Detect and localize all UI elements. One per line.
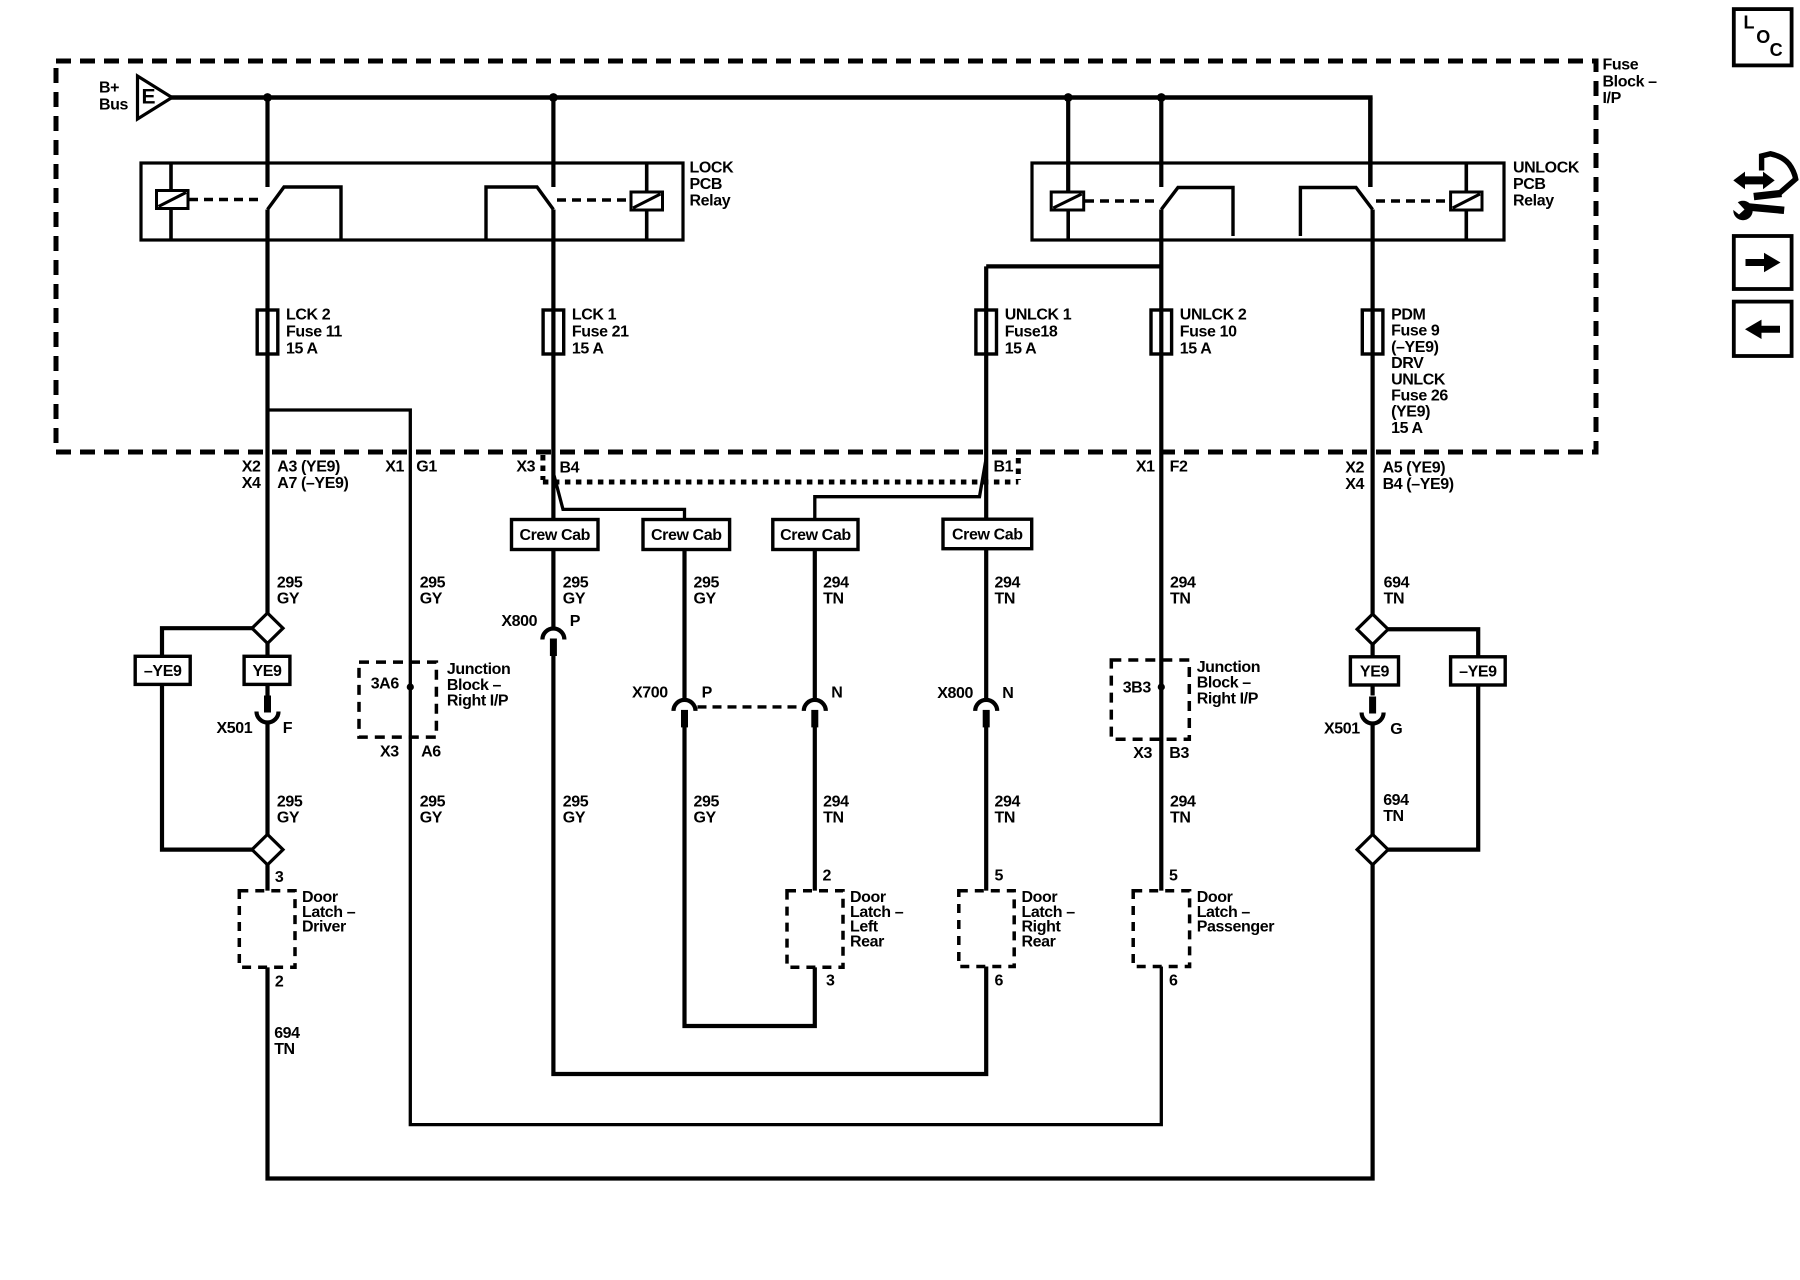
UNLOCK relay coil-switch dashed link 1	[1085, 199, 1157, 202]
wire F: down through B1, crew cab 4, X800 N, right rear latch pin 5	[984, 266, 988, 519]
svg-text:Rear: Rear	[1022, 933, 1056, 950]
option box YE9 left	[244, 656, 290, 684]
Crew Cab box 1	[512, 520, 599, 550]
inline connector X800 N	[975, 700, 997, 711]
wire H: PDM fuse branch down to diamond	[1370, 210, 1374, 615]
svg-text:3: 3	[826, 972, 835, 989]
svg-text:X4: X4	[242, 475, 261, 492]
forward arrow box icon	[1734, 236, 1792, 289]
svg-text:TN: TN	[274, 1041, 295, 1058]
svg-text:Fuse 21: Fuse 21	[572, 324, 629, 341]
svg-text:GY: GY	[563, 591, 586, 608]
junction block right I/P (3B3) dashed box	[1111, 660, 1189, 739]
svg-text:Driver: Driver	[302, 919, 346, 936]
svg-text:I/P: I/P	[1603, 90, 1622, 107]
LOCK PCB relay box	[141, 163, 683, 240]
svg-text:15 A: 15 A	[286, 341, 318, 358]
UNLOCK relay coil 2 wires	[1465, 163, 1469, 193]
svg-text:B4 (–YE9): B4 (–YE9)	[1383, 476, 1454, 493]
branch wire: A to junction block X1 G1	[268, 410, 1162, 1125]
svg-text:295: 295	[563, 575, 589, 592]
option box YE9 right	[1350, 657, 1398, 685]
svg-text:E: E	[142, 86, 156, 109]
svg-text:YE9: YE9	[1360, 664, 1390, 681]
junction block right I/P (3A6) dashed box	[359, 662, 436, 737]
svg-text:N: N	[1002, 685, 1013, 702]
svg-text:G: G	[1390, 721, 1402, 738]
svg-text:X2: X2	[1345, 460, 1364, 477]
svg-text:694: 694	[274, 1025, 300, 1042]
svg-text:295: 295	[694, 575, 720, 592]
svg-text:GY: GY	[694, 591, 717, 608]
splice diamond H upper	[1357, 614, 1388, 644]
fuse PDM Fuse 9	[1362, 310, 1383, 354]
LOCK relay coil-switch dashed link 2	[557, 198, 629, 201]
inline connector X501 G	[1369, 697, 1376, 714]
svg-text:G1: G1	[416, 459, 437, 476]
svg-text:–YE9: –YE9	[1459, 664, 1497, 681]
wire D: below X700 P to left rear latch pin 3	[685, 727, 815, 1026]
door latch left rear dashed box	[787, 891, 843, 967]
svg-text:15 A: 15 A	[1391, 420, 1423, 437]
wire: LOCK relay pole 1 from bus	[265, 98, 269, 188]
inline connector X700 P	[674, 700, 696, 711]
svg-text:294: 294	[995, 575, 1021, 592]
svg-text:(–YE9): (–YE9)	[1391, 339, 1438, 356]
svg-text:LCK 1: LCK 1	[572, 307, 617, 324]
UNLOCK relay switch 1 contact	[1161, 188, 1233, 237]
svg-text:Junction: Junction	[1197, 659, 1260, 676]
svg-text:Fuse18: Fuse18	[1005, 324, 1058, 341]
svg-text:Junction: Junction	[447, 661, 510, 678]
svg-text:295: 295	[694, 794, 720, 811]
B+ bus wire	[170, 95, 1373, 100]
door latch passenger dashed box	[1133, 891, 1189, 967]
svg-text:Bus: Bus	[99, 97, 129, 114]
svg-text:PDM: PDM	[1391, 307, 1425, 324]
svg-text:295: 295	[563, 794, 589, 811]
UNLOCK relay switch 2 contact	[1300, 188, 1372, 237]
svg-text:Crew Cab: Crew Cab	[651, 527, 722, 544]
svg-text:TN: TN	[1170, 591, 1191, 608]
svg-text:294: 294	[1170, 794, 1196, 811]
svg-text:(YE9): (YE9)	[1391, 404, 1430, 421]
wire C: LCK1 fuse down through Crew Cab to X800 P	[551, 210, 555, 629]
svg-text:2: 2	[275, 974, 284, 991]
svg-text:5: 5	[1169, 868, 1178, 885]
wire F: UNLCK1 fuse feed tap	[986, 264, 1161, 268]
svg-text:2: 2	[823, 868, 832, 885]
svg-text:294: 294	[823, 794, 849, 811]
svg-text:295: 295	[277, 575, 303, 592]
wire C branch at B4 to crew cab 2	[553, 473, 684, 520]
UNLOCK relay coil 2	[1451, 192, 1482, 210]
svg-text:3: 3	[275, 869, 284, 886]
inline connector X501 F	[264, 696, 271, 713]
svg-text:UNLCK: UNLCK	[1391, 371, 1446, 388]
B+ Bus source triangle E	[138, 76, 173, 119]
splice diamond H lower	[1357, 834, 1388, 864]
LOCK relay coil 2	[631, 192, 663, 210]
UNLOCK relay coil 1 wire below	[1066, 210, 1070, 240]
junction dot 3A6	[407, 683, 414, 690]
svg-text:TN: TN	[823, 591, 844, 608]
wire A below X501: down to door latch driver	[265, 723, 269, 891]
Crew Cab box 3	[773, 520, 858, 550]
svg-text:294: 294	[995, 794, 1021, 811]
svg-text:GY: GY	[277, 591, 300, 608]
UNLOCK relay coil 1	[1051, 192, 1084, 210]
svg-text:Crew Cab: Crew Cab	[780, 527, 851, 544]
svg-text:X3: X3	[380, 744, 399, 761]
door latch right rear dashed box	[959, 891, 1014, 967]
fuse UNLCK 2 Fuse 10	[1151, 310, 1172, 354]
dotted inline connector band B4-B1	[540, 455, 545, 480]
svg-text:UNLCK 1: UNLCK 1	[1005, 307, 1072, 324]
LOCK relay coil	[157, 191, 189, 209]
LOCK relay coil-switch dashed link 1	[189, 198, 261, 201]
svg-text:N: N	[831, 684, 842, 701]
svg-text:X501: X501	[217, 720, 253, 737]
dashed pairing line X700 P-N	[698, 705, 802, 708]
wire G: UNLOCK relay to UNLCK2 fuse, junction 3B3, passenger latch pin 5	[1159, 210, 1163, 891]
svg-text:X800: X800	[937, 685, 973, 702]
svg-text:F2: F2	[1170, 459, 1188, 476]
svg-text:6: 6	[1169, 972, 1178, 989]
svg-text:Fuse 11: Fuse 11	[286, 324, 342, 341]
right -YE9 loop wire	[1386, 629, 1478, 849]
svg-text:3B3: 3B3	[1123, 680, 1152, 697]
svg-text:Fuse 26: Fuse 26	[1391, 388, 1448, 405]
svg-text:295: 295	[420, 575, 446, 592]
option box -YE9 right	[1451, 657, 1506, 685]
svg-text:X800: X800	[501, 613, 537, 630]
LOCK relay switch 2 contact	[486, 187, 553, 239]
svg-text:Right I/P: Right I/P	[447, 693, 509, 710]
svg-text:A7 (–YE9): A7 (–YE9)	[277, 475, 348, 492]
svg-text:694: 694	[1384, 575, 1410, 592]
svg-text:PCB: PCB	[690, 176, 723, 193]
svg-text:TN: TN	[1170, 810, 1191, 827]
wire H below X501 G to lower diamond	[1370, 724, 1374, 836]
svg-text:X501: X501	[1324, 721, 1360, 738]
bus junction dot G	[1157, 93, 1166, 102]
svg-text:O: O	[1756, 27, 1770, 47]
svg-text:B+: B+	[99, 80, 119, 97]
svg-text:TN: TN	[995, 810, 1016, 827]
wire: LOCK relay pole 2 from bus	[551, 98, 555, 188]
fuse UNLCK 1 Fuse 18	[976, 310, 997, 354]
svg-text:X1: X1	[1136, 459, 1155, 476]
svg-text:294: 294	[1170, 575, 1196, 592]
svg-text:295: 295	[420, 794, 446, 811]
svg-text:X3: X3	[516, 459, 535, 476]
svg-text:Rear: Rear	[850, 933, 884, 950]
svg-text:Block –: Block –	[1603, 73, 1658, 90]
svg-text:X3: X3	[1133, 745, 1152, 762]
svg-text:6: 6	[995, 972, 1004, 989]
svg-text:Block –: Block –	[447, 677, 502, 694]
svg-text:TN: TN	[823, 810, 844, 827]
svg-text:P: P	[702, 684, 713, 701]
wire C: below X800 P down to right rear latch pin 6	[553, 656, 986, 1074]
LOCK relay coil wires	[169, 163, 173, 191]
svg-text:GY: GY	[694, 810, 717, 827]
svg-text:295: 295	[277, 794, 303, 811]
Crew Cab box 4	[943, 519, 1032, 549]
svg-text:Fuse 9: Fuse 9	[1391, 323, 1440, 340]
option box -YE9 left	[135, 656, 190, 684]
svg-text:Passenger: Passenger	[1197, 919, 1275, 936]
left -YE9 loop wire	[162, 628, 254, 849]
svg-text:A5 (YE9): A5 (YE9)	[1383, 460, 1446, 477]
svg-text:GY: GY	[420, 810, 443, 827]
wire E branch at B1 to crew cab 3	[815, 458, 986, 520]
UNLOCK PCB relay box	[1032, 163, 1504, 240]
svg-text:X1: X1	[385, 459, 404, 476]
svg-text:LOCK: LOCK	[690, 160, 735, 177]
svg-text:Relay: Relay	[690, 192, 731, 209]
svg-text:Right I/P: Right I/P	[1197, 690, 1259, 707]
svg-text:YE9: YE9	[252, 663, 282, 680]
bus junction dot coil	[1064, 93, 1073, 102]
svg-text:TN: TN	[1383, 808, 1404, 825]
svg-text:TN: TN	[1384, 591, 1405, 608]
svg-text:GY: GY	[420, 591, 443, 608]
svg-text:C: C	[1770, 40, 1783, 60]
svg-text:A6: A6	[421, 744, 441, 761]
svg-text:DRV: DRV	[1391, 355, 1424, 372]
svg-text:PCB: PCB	[1513, 176, 1546, 193]
diagnostic icon (arrows + wrench)	[1732, 154, 1796, 220]
svg-text:3A6: 3A6	[371, 676, 400, 693]
svg-text:TN: TN	[995, 591, 1016, 608]
svg-text:X700: X700	[632, 684, 668, 701]
svg-text:Crew Cab: Crew Cab	[952, 527, 1023, 544]
svg-text:F: F	[283, 720, 293, 737]
fuse LCK 2 Fuse 11	[257, 310, 278, 354]
svg-text:Crew Cab: Crew Cab	[519, 527, 590, 544]
fuse LCK 1 Fuse 21	[543, 310, 564, 354]
wire H: diamond to YE9 to X501 G	[1370, 644, 1374, 696]
svg-text:X2: X2	[242, 459, 261, 476]
wire: UNLOCK relay pole 1 from bus	[1159, 98, 1163, 188]
LOC locator box icon	[1734, 9, 1792, 65]
inline connector X700 N	[804, 700, 826, 711]
svg-text:LCK 2: LCK 2	[286, 307, 331, 324]
wire 295 GY circuit A: fuse LCK2 down to YE9 connector	[265, 210, 269, 697]
fuse block I/P dashed boundary	[56, 61, 1596, 452]
LOCK relay switch 1 contact	[268, 187, 342, 239]
wire E: crew cab 3 down to N connector and left rear latch pin 2	[813, 550, 817, 700]
svg-text:5: 5	[995, 868, 1004, 885]
svg-text:Fuse 10: Fuse 10	[1180, 324, 1237, 341]
Crew Cab box 2	[643, 520, 730, 550]
door latch driver dashed box	[239, 891, 295, 967]
bus junction dot A	[263, 93, 272, 102]
splice diamond A upper	[252, 613, 283, 643]
wire A: door latch driver pin 2 down, 694 TN return to passenger branch	[268, 864, 1373, 1179]
svg-text:X4: X4	[1345, 476, 1364, 493]
svg-text:15 A: 15 A	[572, 341, 604, 358]
svg-text:UNLCK 2: UNLCK 2	[1180, 307, 1247, 324]
back arrow box icon	[1734, 302, 1792, 356]
inline connector X800 P	[542, 629, 564, 640]
junction dot 3B3	[1158, 683, 1165, 690]
svg-text:15 A: 15 A	[1005, 341, 1037, 358]
LOCK relay coil 2 wires	[645, 163, 649, 193]
svg-text:–YE9: –YE9	[144, 663, 182, 680]
svg-text:B4: B4	[560, 460, 580, 477]
wire: UNLOCK relay coil 1 feed from bus	[1066, 98, 1070, 193]
svg-text:Relay: Relay	[1513, 192, 1554, 209]
svg-text:A3 (YE9): A3 (YE9)	[277, 459, 340, 476]
svg-text:15 A: 15 A	[1180, 341, 1212, 358]
svg-text:Block –: Block –	[1197, 675, 1252, 692]
bus junction dot C	[549, 93, 558, 102]
wire D: crew cab 2 down to X700 P	[682, 550, 686, 700]
splice diamond A lower	[252, 834, 283, 864]
UNLOCK relay coil-switch dashed link 2	[1376, 199, 1449, 202]
svg-text:GY: GY	[277, 810, 300, 827]
svg-text:294: 294	[823, 575, 849, 592]
svg-text:Fuse: Fuse	[1603, 57, 1639, 74]
svg-text:694: 694	[1383, 792, 1409, 809]
svg-text:UNLOCK: UNLOCK	[1513, 160, 1580, 177]
svg-text:B3: B3	[1169, 745, 1189, 762]
svg-text:L: L	[1744, 13, 1755, 33]
svg-text:B1: B1	[994, 459, 1014, 476]
svg-text:P: P	[570, 613, 581, 630]
svg-text:GY: GY	[563, 810, 586, 827]
